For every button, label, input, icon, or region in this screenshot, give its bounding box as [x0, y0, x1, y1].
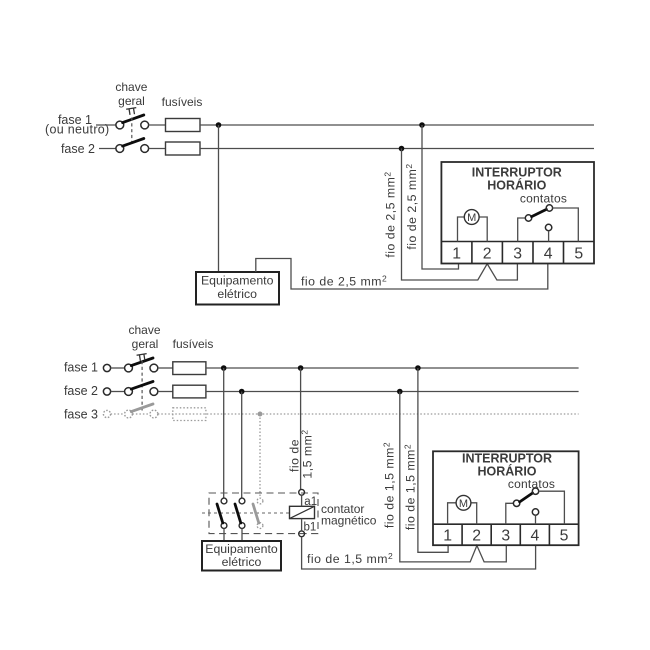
wire down to coil a1 [300, 368, 302, 489]
wire fase1 lead [111, 367, 125, 369]
svg-text:1: 1 [443, 528, 452, 545]
supply terminal circle fase2 [103, 388, 110, 395]
svg-text:geral: geral [132, 337, 159, 351]
svg-text:fio de 1,5 mm2: fio de 1,5 mm2 [382, 442, 397, 528]
contactor pole 3 blade (future) [253, 504, 259, 523]
coil K1 [290, 506, 315, 518]
switch S2b blade [131, 382, 153, 390]
node fase2 to terminal 2 (bottom U2) [397, 389, 403, 395]
wires contactor poles to equipment [224, 529, 242, 542]
wire fase2 down to terminal 2 jumper [402, 149, 518, 281]
svg-text:5: 5 [560, 528, 569, 545]
wire fase1 down to terminal 1 [422, 125, 459, 269]
fuse F4 [173, 385, 206, 398]
svg-text:M: M [467, 212, 476, 224]
manual actuator symbol (bottom) [137, 354, 148, 362]
svg-text:fase 2: fase 2 [64, 384, 98, 398]
switch S2c blade (future) [131, 404, 153, 412]
manual actuator symbol [126, 108, 137, 116]
fuse F5 (future, dotted) [173, 408, 206, 421]
contact common wire from terminal 3 [518, 218, 526, 242]
supply terminal circle fase1 [103, 364, 110, 371]
svg-text:fusíveis: fusíveis [173, 337, 214, 351]
wire fase 1 bus [200, 124, 594, 126]
svg-text:3: 3 [501, 528, 510, 545]
switch S1a terminal circle right [141, 121, 149, 129]
wire fase 1 bus (bottom) [206, 367, 579, 369]
switch S2a circles [125, 364, 133, 372]
wire coil to b1 circle [301, 519, 303, 531]
svg-text:chave: chave [115, 80, 147, 94]
svg-text:magnético: magnético [321, 514, 377, 528]
wire NO contact to terminal 4 [548, 231, 550, 242]
wire fase2 to terminal 2 jumper of U2 [400, 392, 507, 562]
contact pivot circle [525, 215, 531, 221]
svg-text:4: 4 [544, 246, 553, 263]
wire a1 circle to coil [301, 495, 303, 506]
wire fase 3 dotted bus [111, 413, 579, 415]
coil terminal circle a1 [299, 489, 305, 495]
wire down to contactor pole 1 [223, 368, 225, 498]
contact NO circle [545, 224, 551, 230]
switch S2c circles (future) [125, 410, 133, 418]
time switch U1 box [441, 162, 594, 264]
contact NO circle (U2) [532, 509, 538, 515]
node fase1 to coil a1 [298, 365, 304, 371]
wire fase1 to terminal 1 of U2 [418, 368, 448, 552]
contactor pole 2 circles [239, 498, 245, 504]
contactor pole 1 circles [221, 498, 227, 504]
svg-text:3: 3 [513, 246, 522, 263]
contact NC circle (U2) [532, 488, 538, 494]
switch S1b terminal circle right [141, 145, 149, 153]
node fase1 to contactor pole 1 [221, 365, 227, 371]
coil terminal circle b1 [299, 531, 305, 537]
svg-text:elétrico: elétrico [222, 555, 262, 569]
svg-text:b1: b1 [304, 521, 317, 533]
terminal strip U2 [433, 523, 579, 525]
svg-text:fio de 2,5 mm2: fio de 2,5 mm2 [301, 274, 387, 289]
node fase3 to contactor pole 3 (future) [258, 412, 263, 417]
supply terminal circle fase3 (future, dashed) [103, 410, 110, 417]
svg-text:M: M [459, 498, 468, 510]
svg-text:geral: geral [118, 94, 145, 108]
contact pivot circle (U2) [513, 500, 519, 506]
contactor pole 2 blade [235, 504, 241, 523]
svg-text:INTERRUPTOR: INTERRUPTOR [472, 166, 562, 180]
svg-text:2: 2 [472, 528, 481, 545]
wire NO contact to terminal 4 (U2) [535, 515, 537, 524]
svg-text:chave: chave [128, 323, 160, 337]
svg-text:contatos: contatos [508, 477, 555, 491]
switch S2b circles [125, 388, 133, 396]
svg-text:fase 2: fase 2 [61, 142, 95, 156]
svg-text:fase 3: fase 3 [64, 408, 98, 422]
contactor K1 dashed enclosure [209, 493, 318, 534]
svg-text:5: 5 [574, 246, 583, 263]
switch S1a blade [123, 115, 144, 123]
contactor mechanical link dashed [202, 512, 290, 514]
wire S1a to fuse F1 [149, 124, 166, 126]
svg-text:fio de 1,5 mm2: fio de 1,5 mm2 [403, 444, 418, 530]
wire b1 to terminal 4 of U2 [302, 537, 536, 569]
mechanical link dashed [131, 118, 133, 146]
terminal strip U1 [441, 241, 594, 243]
fuse F3 [173, 362, 206, 375]
contact NC circle [546, 205, 552, 211]
motor M1 [464, 210, 479, 225]
svg-text:fio de 2,5 mm2: fio de 2,5 mm2 [383, 171, 398, 257]
contactor pole 3 circles (future) [257, 498, 263, 504]
equipment box (top) [196, 272, 279, 305]
svg-text:fase 1: fase 1 [64, 361, 98, 375]
wire S1b to fuse F2 [149, 148, 166, 150]
svg-text:Equipamento: Equipamento [205, 542, 278, 556]
time switch U2 box [433, 451, 579, 545]
fuse F1 [166, 119, 201, 132]
contactor pole 1 blade [217, 504, 223, 523]
svg-text:Equipamento: Equipamento [201, 274, 274, 288]
wire fase 2 bus [200, 148, 594, 150]
motor M2 loop wires [448, 503, 477, 524]
node fase2 to contactor pole 2 [239, 389, 245, 395]
wire fase 2 lead-in [99, 148, 116, 150]
svg-text:fusíveis: fusíveis [162, 95, 203, 109]
equipment box (bottom) [202, 541, 281, 571]
svg-text:2: 2 [483, 246, 492, 263]
svg-text:fio de 2,5 mm2: fio de 2,5 mm2 [404, 163, 419, 249]
fuse F2 [166, 142, 201, 155]
svg-text:contatos: contatos [520, 192, 567, 206]
node fase1 to terminal 1 (bottom U2) [415, 365, 421, 371]
wire NC contact to terminal 5 [553, 208, 579, 242]
motor M1 loop wires [458, 217, 488, 242]
svg-text:1: 1 [452, 246, 461, 263]
contact common wire from terminal 3 (U2) [506, 503, 514, 524]
wire to fuse F3 [158, 367, 173, 369]
switch S1b terminal circle left [116, 145, 124, 153]
node fase2 to terminal 2 [399, 146, 405, 152]
wire equipment to terminal 4 [256, 259, 548, 290]
node fase1 to terminal 1 [419, 122, 425, 128]
svg-text:INTERRUPTOR: INTERRUPTOR [462, 451, 552, 465]
contact blade [532, 209, 547, 216]
wire to fuse F4 [158, 391, 173, 393]
contact blade (U2) [520, 493, 533, 502]
wire down to contactor pole 3 (future, dotted) [259, 414, 261, 498]
wire fase 2 bus (bottom) [206, 391, 579, 393]
svg-text:HORÁRIO: HORÁRIO [487, 178, 546, 193]
wire NC contact to terminal 5 (U2) [539, 491, 565, 524]
switch S2a blade [131, 358, 153, 366]
switch S1a terminal circle left [116, 121, 124, 129]
mechanical link dashed (bottom) [141, 361, 143, 411]
wire fase1 down to equipment box [218, 125, 220, 272]
wire down to contactor pole 2 [241, 392, 243, 499]
motor M2 [456, 495, 471, 510]
svg-text:fio de 1,5 mm2: fio de 1,5 mm2 [307, 551, 393, 566]
node fase1 to equipment [216, 122, 222, 128]
wire fase 1 lead-in [96, 124, 116, 126]
switch S1b blade [123, 139, 144, 147]
wire fase2 lead [111, 391, 125, 393]
svg-text:4: 4 [531, 528, 540, 545]
svg-text:fio de: fio de [287, 439, 301, 472]
svg-text:1,5 mm2: 1,5 mm2 [300, 429, 315, 478]
svg-text:elétrico: elétrico [217, 287, 257, 301]
